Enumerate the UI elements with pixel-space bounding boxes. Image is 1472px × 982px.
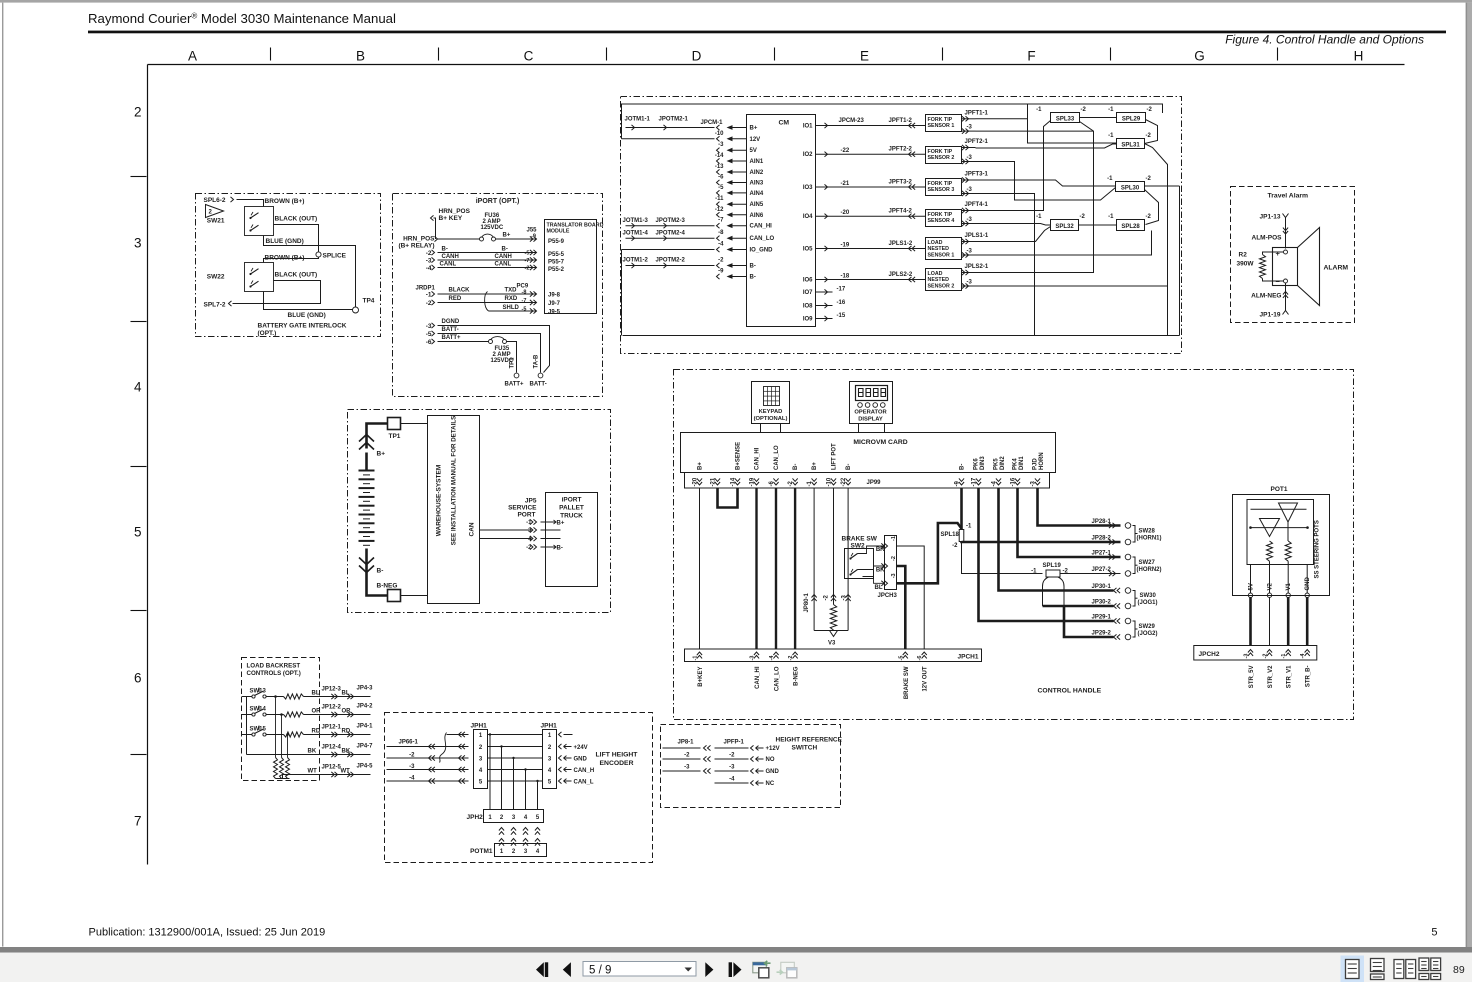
wire S1-1 to splice column: [976, 118, 1028, 120]
svg-text:SW29: SW29: [1139, 624, 1156, 630]
svg-text:-17: -17: [837, 287, 846, 293]
sensor LOAD NESTED SENSOR 2: [926, 269, 962, 291]
svg-text:-3: -3: [750, 656, 756, 661]
svg-text:G: G: [1194, 49, 1205, 64]
svg-text:IO7: IO7: [803, 290, 813, 296]
iport block border: [393, 194, 603, 397]
svg-text:CAN_HI: CAN_HI: [750, 224, 773, 230]
svg-text:JP8-1: JP8-1: [678, 740, 695, 746]
svg-text:-5: -5: [718, 185, 724, 191]
svg-text:TA-B: TA-B: [534, 354, 540, 369]
svg-text:CANH: CANH: [442, 254, 459, 260]
svg-text:B-: B-: [502, 247, 508, 253]
svg-text:-1: -1: [966, 524, 972, 530]
connector JPCH1: [685, 649, 982, 662]
jpch1 pin -1 B+KEY: [697, 652, 702, 655]
svg-text:JOTM1-3: JOTM1-3: [623, 218, 649, 224]
svg-text:BLACK (OUT): BLACK (OUT): [275, 272, 318, 279]
frame left line: [147, 65, 149, 865]
layout icon two page continuous: [1419, 958, 1429, 971]
svg-text:JP4-2: JP4-2: [357, 704, 374, 710]
svg-text:SPLICE: SPLICE: [323, 253, 347, 260]
svg-text:DIN2: DIN2: [1000, 456, 1006, 470]
svg-text:-10: -10: [715, 131, 724, 137]
svg-text:JPFP-1: JPFP-1: [724, 740, 745, 746]
jpch1 pin -6 12V OUT: [922, 652, 927, 655]
svg-text:LOAD: LOAD: [928, 240, 943, 246]
svg-text:125VDC: 125VDC: [481, 225, 504, 231]
svg-text:B+: B+: [812, 462, 818, 470]
svg-text:CAN: CAN: [469, 522, 476, 536]
svg-text:P55-5: P55-5: [548, 252, 565, 258]
warehouse block border: [348, 410, 611, 613]
svg-text:-3: -3: [426, 258, 432, 265]
svg-text:+12V: +12V: [766, 746, 780, 752]
svg-text:STR_5V: STR_5V: [1249, 666, 1255, 689]
svg-text:-1: -1: [426, 292, 432, 299]
svg-text:V2: V2: [1268, 582, 1274, 590]
svg-text:CAN_H: CAN_H: [574, 768, 595, 774]
alarm speaker: [1273, 248, 1298, 286]
svg-text:H: H: [1354, 49, 1364, 64]
svg-text:JP4-1: JP4-1: [357, 724, 374, 730]
svg-text:-1: -1: [1036, 107, 1042, 113]
svg-text:B-: B-: [960, 464, 966, 470]
svg-text:-14: -14: [715, 153, 724, 159]
svg-text:TP1: TP1: [510, 357, 516, 369]
svg-text:-3: -3: [1244, 654, 1250, 659]
wire LIFT POT to resistor: [833, 488, 835, 604]
wire S4-3 to SPL32-1: [976, 224, 1051, 226]
svg-text:BLUE (GND): BLUE (GND): [288, 312, 326, 319]
svg-text:-1: -1: [1281, 654, 1287, 659]
wire CAN_LO vertical: [775, 488, 777, 649]
svg-text:PC9: PC9: [517, 284, 529, 290]
wire SPL33 to SPL29: [1080, 117, 1117, 119]
svg-text:V1: V1: [1286, 582, 1292, 590]
svg-text:BATT+: BATT+: [442, 335, 462, 341]
svg-text:-3: -3: [718, 142, 724, 148]
wire CAN bus to service port: [480, 529, 532, 531]
wire B+ top rail: [622, 104, 1163, 139]
wire SPL33-1 to S4-1: [976, 121, 1051, 211]
svg-text:-2: -2: [1146, 133, 1152, 139]
svg-text:-1: -1: [693, 656, 699, 661]
svg-text:-13: -13: [715, 164, 724, 170]
svg-text:ALM-NEG: ALM-NEG: [1251, 293, 1281, 300]
wire S3-3 to ground rail: [976, 194, 1035, 336]
svg-text:B-: B-: [750, 264, 756, 270]
SPL19 bell housing: [1043, 577, 1065, 606]
svg-text:B-: B-: [793, 464, 799, 470]
terminal B-NEG: [388, 590, 401, 602]
svg-text:Figure 4. Control Handle and: Figure 4. Control Handle and Options: [1225, 33, 1424, 47]
wire TP1 to battery: [367, 424, 388, 449]
svg-text:-4: -4: [718, 242, 724, 248]
wire bell to JP29-2: [1064, 606, 1114, 637]
wire SW15 row: [266, 734, 284, 736]
svg-text:IO8: IO8: [803, 304, 813, 310]
svg-text:SPL33: SPL33: [1056, 117, 1075, 123]
svg-text:Travel Alarm: Travel Alarm: [1268, 193, 1309, 200]
svg-text:AIN4: AIN4: [750, 191, 764, 197]
svg-text:IO4: IO4: [803, 214, 813, 220]
keypad module: [752, 382, 790, 424]
svg-text:-2: -2: [1146, 214, 1152, 220]
svg-text:-6: -6: [426, 339, 432, 346]
wire S2-1 to SPL31-1: [976, 144, 1117, 148]
svg-text:SENSOR 2: SENSOR 2: [928, 155, 955, 161]
svg-text:-9: -9: [718, 269, 724, 275]
wire JP1-13 to alarm: [1285, 218, 1287, 249]
svg-text:D: D: [692, 49, 702, 64]
wire splice column to SPL31-1: [1028, 104, 1117, 143]
svg-text:IO2: IO2: [803, 152, 813, 158]
wire TP1 to warehouse box: [401, 423, 428, 425]
svg-text:SPL32: SPL32: [1055, 224, 1074, 230]
svg-text:-11: -11: [715, 196, 724, 202]
svg-text:LIFT HEIGHT: LIFT HEIGHT: [596, 752, 639, 759]
svg-text:JP27-2: JP27-2: [1092, 567, 1112, 573]
svg-text:-1: -1: [1031, 569, 1037, 575]
splice SPL18: [960, 488, 963, 529]
wire SPL31-2 down rail: [1145, 144, 1168, 336]
svg-text:-8: -8: [522, 290, 527, 296]
wire SW22 BLUE GND to TP4: [264, 292, 353, 310]
connector JPCH3: [885, 536, 897, 590]
top toolbar edge bar: [0, 0, 1472, 3]
svg-text:-2: -2: [525, 266, 530, 272]
svg-text:-2: -2: [1263, 654, 1269, 659]
connector JPCH2: [1194, 646, 1317, 661]
svg-text:SENSOR 2: SENSOR 2: [928, 283, 955, 289]
svg-text:GND: GND: [574, 757, 588, 763]
svg-text:(HORN2): (HORN2): [1137, 567, 1162, 573]
svg-text:BLACK (OUT): BLACK (OUT): [275, 216, 318, 223]
cm block border: [621, 97, 1182, 354]
svg-text:OPERATOR: OPERATOR: [854, 410, 887, 416]
svg-text:AIN5: AIN5: [750, 202, 764, 208]
svg-text:5 / 9: 5 / 9: [589, 965, 611, 977]
svg-text:JPLS2-2: JPLS2-2: [889, 272, 913, 278]
svg-text:B-: B-: [557, 546, 563, 552]
svg-text:-3: -3: [426, 323, 432, 330]
toolbar previous-view icon: [753, 962, 767, 973]
wire SPL18 to JP28-2: [962, 540, 1121, 543]
svg-text:SW30: SW30: [1140, 593, 1157, 599]
svg-text:BROWN (B+): BROWN (B+): [265, 198, 305, 205]
svg-text:CONTROLS (OPT.): CONTROLS (OPT.): [247, 670, 301, 677]
svg-text:OR: OR: [312, 709, 322, 715]
svg-text:-2: -2: [788, 656, 794, 661]
svg-text:-1: -1: [1108, 214, 1114, 220]
svg-text:HORN: HORN: [1039, 452, 1045, 470]
svg-text:89: 89: [1453, 964, 1465, 976]
svg-text:B-NEG: B-NEG: [794, 666, 800, 686]
svg-text:SENSOR 1: SENSOR 1: [928, 123, 955, 129]
wire B-NEG to warehouse box: [401, 595, 428, 597]
svg-text:-5: -5: [522, 307, 527, 313]
svg-text:-6: -6: [917, 656, 923, 661]
wire SPL6-2 to SW21: [237, 200, 264, 207]
sensor LOAD NESTED SENSOR 1: [926, 238, 962, 260]
svg-text:-22: -22: [841, 148, 850, 154]
sensor FORK TIP SENSOR 4: [926, 210, 962, 227]
sensor FORK TIP SENSOR 2: [926, 147, 962, 164]
encoder right pins: [559, 732, 562, 737]
svg-text:KEYPAD: KEYPAD: [759, 409, 783, 415]
svg-text:12V: 12V: [750, 137, 761, 143]
switch SW28 HORN1 bracket: [1133, 526, 1136, 543]
svg-text:ALARM: ALARM: [1324, 265, 1349, 272]
svg-text:-2: -2: [1147, 107, 1153, 113]
svg-text:LOAD BACKREST: LOAD BACKREST: [247, 663, 301, 670]
svg-text:-18: -18: [841, 274, 850, 280]
svg-text:HRN_POS: HRN_POS: [439, 208, 471, 215]
svg-text:SW21: SW21: [207, 218, 225, 225]
svg-text:BRAKE SW: BRAKE SW: [904, 666, 910, 699]
svg-text:HEIGHT REFERENCE: HEIGHT REFERENCE: [776, 737, 843, 744]
svg-text:-15: -15: [837, 313, 846, 319]
wire SPL30-2 to SPL28-2: [1145, 190, 1159, 225]
svg-text:TXD: TXD: [505, 288, 518, 294]
svg-text:V3: V3: [828, 641, 836, 647]
svg-text:STR_V1: STR_V1: [1287, 665, 1293, 688]
svg-text:AIN1: AIN1: [750, 159, 764, 165]
svg-text:DIN3: DIN3: [980, 456, 986, 470]
svg-text:GND: GND: [766, 769, 780, 775]
sensor FORK TIP SENSOR 1: [926, 115, 962, 132]
svg-text:C: C: [524, 49, 534, 64]
svg-text:JP1-13: JP1-13: [1260, 214, 1281, 221]
svg-text:JP29-2: JP29-2: [1092, 631, 1112, 637]
operator display module: [850, 382, 893, 424]
svg-text:CAN_LO: CAN_LO: [774, 445, 780, 470]
pin B+ pallet truck: [551, 520, 557, 524]
svg-text:JP29-1: JP29-1: [1092, 615, 1112, 621]
wire PK5 to JP30-1: [999, 488, 1114, 590]
toolbar next-view icon disabled: [781, 962, 795, 973]
svg-text:JP4-5: JP4-5: [357, 764, 374, 770]
wire SPL33-2 to L2-1: [976, 122, 1094, 273]
layout icon single page (active): [1341, 956, 1365, 982]
wire cm left rail vertical: [621, 250, 623, 336]
svg-text:iPORT (OPT.): iPORT (OPT.): [476, 198, 520, 205]
svg-text:JPH1: JPH1: [471, 723, 488, 730]
wire SPL29-2 to SPL31-2: [1145, 120, 1158, 144]
wire SPL30-2 right rail: [1145, 185, 1180, 187]
svg-text:JOTM1-1: JOTM1-1: [625, 117, 651, 123]
svg-text:JPOTM2-1: JPOTM2-1: [659, 117, 689, 123]
connector JPH2: [484, 810, 544, 823]
svg-text:JP30-2: JP30-2: [1092, 600, 1112, 606]
svg-text:-1: -1: [1036, 214, 1042, 220]
svg-text:PALLET: PALLET: [559, 505, 584, 512]
svg-text:JP28-1: JP28-1: [1092, 519, 1112, 525]
svg-text:NC: NC: [766, 781, 775, 787]
svg-text:PORT: PORT: [517, 512, 535, 519]
wires pot1 to jpch2: [1249, 598, 1252, 646]
svg-text:BK: BK: [308, 749, 317, 755]
pin B- pallet truck: [551, 545, 557, 549]
svg-text:BR: BR: [876, 547, 885, 553]
svg-text:-2: -2: [891, 556, 897, 561]
jpch1 pin -5 BRAKE SW: [903, 652, 908, 655]
iport pallet truck box: [546, 493, 598, 587]
svg-text:-4: -4: [729, 777, 735, 783]
svg-text:BK: BK: [876, 568, 885, 574]
svg-text:-21: -21: [841, 181, 850, 187]
layout icon continuous: [1371, 959, 1385, 972]
svg-text:SPL19: SPL19: [1043, 563, 1062, 569]
svg-text:-2: -2: [1081, 107, 1087, 113]
svg-text:JP12-4: JP12-4: [322, 745, 342, 751]
splice SPL30: [1116, 182, 1145, 192]
svg-text:-6: -6: [718, 175, 724, 181]
svg-text:(JOG2): (JOG2): [1138, 631, 1158, 637]
load backrest block border: [242, 658, 320, 781]
wires between JPH1 connectors: [488, 734, 543, 736]
svg-text:JP12-5: JP12-5: [322, 765, 342, 771]
toolbar last-page button: [729, 962, 732, 977]
svg-text:B-: B-: [846, 464, 852, 470]
svg-text:FORK TIP: FORK TIP: [928, 149, 953, 155]
svg-text:JPLS1-1: JPLS1-1: [965, 233, 989, 239]
svg-text:4: 4: [134, 380, 142, 395]
svg-text:JPFT4-2: JPFT4-2: [889, 209, 913, 215]
svg-text:BRAKE SW: BRAKE SW: [842, 536, 878, 543]
svg-text:-3: -3: [684, 765, 690, 771]
pot1 pin labels: [1250, 565, 1252, 594]
svg-text:NO: NO: [766, 757, 775, 763]
battery stack: [359, 470, 375, 472]
zener V3: [830, 631, 838, 637]
connector POTM1: [495, 844, 547, 857]
test point TP1 warehouse: [388, 418, 401, 430]
wire IO1 to JPFT1-2: [816, 125, 926, 127]
svg-text:STR_B-: STR_B-: [1306, 666, 1312, 688]
svg-text:Raymond Courier® Model 3030 Ma: Raymond Courier® Model 3030 Maintenance …: [88, 11, 396, 26]
translator board module U-iport: [545, 220, 597, 314]
svg-text:BATT-: BATT-: [442, 327, 459, 333]
wire S1-3 to SPL33-2 column: [976, 130, 1094, 132]
svg-text:-7: -7: [522, 298, 527, 304]
control handle block border: [674, 370, 1354, 720]
svg-text:P55-9: P55-9: [548, 239, 565, 245]
svg-text:JP4-3: JP4-3: [357, 686, 374, 692]
ruler top line: [148, 64, 1405, 66]
svg-text:JPCM-1: JPCM-1: [701, 120, 724, 126]
svg-text:SW27: SW27: [1139, 560, 1156, 566]
svg-text:-16: -16: [837, 300, 846, 306]
svg-text:B+: B+: [557, 521, 565, 527]
svg-text:JPLS2-1: JPLS2-1: [965, 264, 989, 270]
svg-text:JPFT3-2: JPFT3-2: [889, 180, 913, 186]
svg-text:IO5: IO5: [803, 247, 813, 253]
svg-text:(HORN1): (HORN1): [1137, 536, 1162, 542]
splice SPL32: [1051, 220, 1079, 231]
splice SPL33: [1051, 113, 1080, 123]
svg-text:NESTED: NESTED: [928, 277, 950, 283]
wire WT row: [283, 775, 371, 779]
wire top rail to 12V pin: [622, 138, 715, 140]
splice SPL31: [1117, 139, 1145, 149]
svg-text:-3: -3: [842, 595, 848, 601]
svg-text:BATT-: BATT-: [530, 382, 547, 388]
svg-text:WAREHOUSE-SYSTEM: WAREHOUSE-SYSTEM: [436, 465, 443, 537]
svg-text:JP99: JP99: [867, 480, 882, 486]
wire battery to B-NEG: [367, 567, 388, 596]
svg-text:B+: B+: [698, 462, 704, 470]
svg-text:-20: -20: [841, 210, 850, 216]
svg-text:-8: -8: [718, 230, 724, 236]
svg-text:12V OUT: 12V OUT: [923, 666, 929, 691]
svg-text:J9-8: J9-8: [548, 293, 561, 299]
connector JP99: [685, 473, 1050, 489]
svg-text:CANL: CANL: [495, 262, 512, 268]
svg-text:JP1-19: JP1-19: [1260, 312, 1281, 319]
svg-text:CAN_HI: CAN_HI: [755, 447, 761, 470]
svg-text:-3: -3: [729, 765, 735, 771]
svg-text:-2: -2: [824, 595, 830, 601]
node B- warehouse: [365, 549, 368, 567]
svg-text:CM: CM: [779, 120, 790, 127]
svg-text:F: F: [1027, 49, 1035, 64]
svg-text:JPH2: JPH2: [467, 814, 484, 821]
wire SW13 row: [266, 696, 284, 698]
wire IO2 to JPFT2-2: [816, 153, 926, 155]
svg-text:BATT+: BATT+: [505, 382, 525, 388]
svg-text:-1: -1: [1108, 107, 1114, 113]
wire PJD HORN to JP28-1: [1038, 488, 1121, 525]
svg-text:-7: -7: [525, 258, 530, 264]
test point TP4: [353, 307, 359, 313]
warehouse system box: [428, 416, 480, 604]
svg-text:SHLD: SHLD: [503, 305, 520, 311]
svg-text:-2: -2: [426, 300, 432, 307]
svg-text:JP12-2: JP12-2: [322, 705, 342, 711]
svg-text:JPCH3: JPCH3: [878, 593, 898, 599]
wire B+ down to V3 node: [813, 488, 815, 630]
toolbar first-page button: [536, 962, 544, 977]
svg-text:B-: B-: [377, 568, 384, 575]
svg-text:B: B: [356, 49, 365, 64]
svg-text:-7: -7: [718, 218, 724, 224]
svg-text:-5: -5: [898, 656, 904, 661]
svg-text:RXD: RXD: [505, 296, 518, 302]
toolbar next-page button: [705, 962, 713, 977]
pull resistors R load backrest: [275, 697, 277, 758]
wire BR to 12v out: [897, 546, 925, 649]
svg-text:3: 3: [134, 236, 142, 251]
wire BK row: [247, 754, 371, 756]
svg-text:NESTED: NESTED: [928, 246, 950, 252]
svg-text:(B+ RELAY): (B+ RELAY): [398, 243, 434, 250]
svg-text:P55-7: P55-7: [548, 260, 565, 266]
svg-text:MODULE: MODULE: [547, 229, 570, 235]
svg-text:PK6: PK6: [974, 458, 980, 470]
svg-text:5V: 5V: [1249, 583, 1255, 590]
svg-text:-5: -5: [525, 251, 530, 257]
svg-text:RED: RED: [449, 296, 462, 302]
svg-text:JP12-1: JP12-1: [322, 725, 342, 731]
right page edge and margin: [1466, 3, 1468, 947]
svg-text:6: 6: [134, 671, 142, 686]
svg-text:DISPLAY: DISPLAY: [858, 417, 883, 423]
svg-text:SEE INSTALLATION MANUAL FOR DE: SEE INSTALLATION MANUAL FOR DETAILS: [451, 416, 458, 545]
svg-text:JPCH2: JPCH2: [1199, 651, 1220, 658]
svg-text:-5: -5: [426, 331, 432, 338]
